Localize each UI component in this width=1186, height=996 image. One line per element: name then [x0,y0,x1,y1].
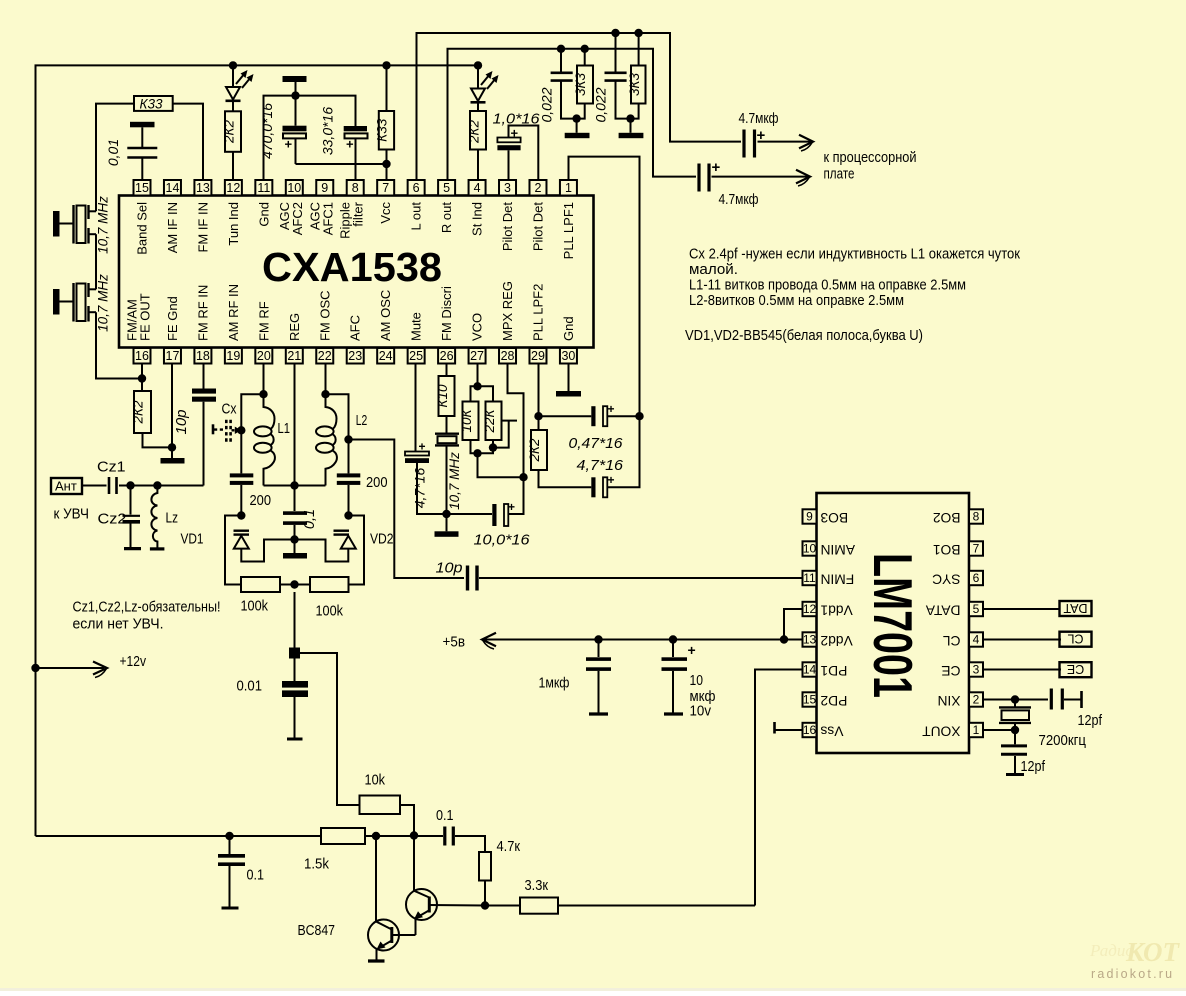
svg-text:XOUT: XOUT [922,724,961,739]
svg-text:1,0*16: 1,0*16 [493,111,541,128]
svg-text:2К2: 2К2 [130,400,145,424]
svg-text:LM7001: LM7001 [862,553,924,698]
svg-text:15: 15 [135,181,149,195]
svg-text:4.7к: 4.7к [497,838,521,855]
svg-text:radiokot.ru: radiokot.ru [1091,967,1174,981]
svg-text:CL: CL [1067,632,1083,646]
svg-text:0.1: 0.1 [247,867,265,884]
svg-text:4: 4 [973,633,980,647]
svg-text:Vdd2: Vdd2 [821,633,853,648]
svg-text:Gnd: Gnd [256,202,271,227]
svg-text:FM RF: FM RF [256,301,271,341]
svg-text:20: 20 [257,349,271,363]
svg-text:L1: L1 [278,420,291,437]
svg-text:10: 10 [287,181,301,195]
svg-text:7: 7 [382,181,389,195]
svg-text:10К: 10К [459,408,474,432]
svg-text:6: 6 [413,181,420,195]
svg-text:MPX REG: MPX REG [500,281,515,341]
svg-text:плате: плате [824,167,855,183]
svg-text:10k: 10k [365,772,386,789]
svg-text:Cz1,Cz2,Lz-обязательны!: Cz1,Cz2,Lz-обязательны! [73,600,221,616]
svg-text:Gnd: Gnd [561,316,576,341]
svg-text:FMIN: FMIN [821,572,855,587]
svg-text:16: 16 [135,349,149,363]
svg-text:9: 9 [806,510,813,524]
svg-text:REG: REG [287,313,302,341]
svg-text:13: 13 [803,633,817,647]
svg-text:+: + [419,440,426,454]
svg-text:24: 24 [379,349,393,363]
svg-text:3.3к: 3.3к [525,877,549,894]
svg-text:11: 11 [803,571,816,585]
svg-text:1мкф: 1мкф [539,676,570,692]
svg-text:SYC: SYC [932,572,960,587]
svg-text:Cx: Cx [222,402,238,418]
svg-text:Tun Ind: Tun Ind [226,202,241,246]
svg-text:+12v: +12v [120,654,147,670]
svg-text:+: + [608,473,615,487]
svg-text:8: 8 [352,181,359,195]
svg-text:10p: 10p [173,409,190,434]
svg-text:2К2: 2К2 [466,120,481,144]
svg-text:0,022: 0,022 [593,87,609,122]
svg-text:AM OSC: AM OSC [378,290,393,341]
svg-text:Vcc: Vcc [378,202,393,224]
svg-text:8: 8 [973,510,980,524]
svg-text:21: 21 [287,349,301,363]
svg-text:10p: 10p [436,560,463,577]
svg-text:+: + [757,127,766,144]
svg-text:L2-8витков 0.5мм на оправке 2.: L2-8витков 0.5мм на оправке 2.5мм [689,293,904,309]
svg-text:КОТ: КОТ [1125,937,1181,967]
svg-text:L1-11 витков провода 0.5мм на: L1-11 витков провода 0.5мм на оправке 2.… [689,278,966,294]
svg-text:12pf: 12pf [1021,759,1046,775]
svg-text:11: 11 [257,181,270,195]
svg-text:10v: 10v [690,704,712,720]
svg-text:19: 19 [226,349,240,363]
svg-text:filter: filter [351,201,366,226]
svg-text:AFC: AFC [348,315,363,341]
svg-text:L2: L2 [356,412,368,429]
svg-text:VD1: VD1 [181,531,204,548]
svg-text:Pilot Det: Pilot Det [500,202,515,252]
svg-text:FM RF IN: FM RF IN [195,285,210,341]
svg-text:13: 13 [196,181,210,195]
svg-text:3: 3 [973,663,980,677]
svg-text:10,7 MHz: 10,7 MHz [96,274,111,332]
svg-text:Vdd1: Vdd1 [821,603,853,618]
svg-text:5: 5 [973,602,980,616]
svg-text:7: 7 [973,542,980,556]
svg-text:FM OSC: FM OSC [317,290,332,341]
svg-text:CXA1538: CXA1538 [262,244,442,290]
svg-text:3К3: 3К3 [573,73,588,96]
svg-text:Ант: Ант [55,479,77,494]
svg-text:2К2: 2К2 [221,120,236,144]
svg-text:29: 29 [531,349,545,363]
svg-text:26: 26 [440,349,454,363]
svg-text:+: + [285,137,293,152]
svg-text:+: + [712,159,721,176]
svg-text:DATA: DATA [925,603,961,618]
svg-text:1: 1 [973,723,980,737]
svg-text:+5в: +5в [443,635,466,651]
svg-text:+: + [508,500,515,514]
svg-text:7200кгц: 7200кгц [1039,733,1087,749]
svg-text:15: 15 [803,693,817,707]
svg-text:0.1: 0.1 [436,807,454,824]
svg-text:12: 12 [226,181,240,195]
svg-text:2: 2 [973,693,980,707]
svg-text:VD1,VD2-BB545(белая полоса,бук: VD1,VD2-BB545(белая полоса,буква U) [685,328,923,344]
svg-text:10,7 MHz: 10,7 MHz [96,196,111,254]
svg-text:28: 28 [501,349,515,363]
svg-text:10,0*16: 10,0*16 [474,532,531,549]
svg-text:3К3: 3К3 [627,73,642,96]
svg-text:FE OUT: FE OUT [138,293,153,341]
svg-text:малой.: малой. [689,262,738,278]
svg-text:Cz1: Cz1 [97,460,126,476]
svg-text:L out: L out [409,202,424,231]
svg-text:10,7 MHz: 10,7 MHz [447,452,462,510]
svg-text:Cх 2.4pf -нужен если индуктивн: Cх 2.4pf -нужен если индуктивность L1 ок… [689,247,1021,263]
svg-text:AFC2: AFC2 [290,202,305,235]
svg-text:22К: 22К [482,408,497,433]
svg-text:200: 200 [250,492,272,509]
svg-text:17: 17 [166,349,180,363]
svg-text:R out: R out [439,202,454,233]
svg-text:0,022: 0,022 [539,87,555,122]
svg-text:+: + [511,126,519,141]
svg-text:2К2: 2К2 [527,438,542,462]
svg-text:12pf: 12pf [1078,713,1103,729]
svg-text:XIN: XIN [938,693,961,708]
svg-text:16: 16 [803,723,817,737]
svg-text:22: 22 [318,349,332,363]
svg-text:5: 5 [443,181,450,195]
svg-text:BO1: BO1 [933,542,961,557]
svg-text:10: 10 [690,673,704,689]
svg-text:4,7*16: 4,7*16 [577,457,624,474]
svg-text:14: 14 [166,181,180,195]
svg-text:+: + [608,402,615,416]
svg-text:+: + [346,137,354,152]
svg-text:9: 9 [321,181,328,195]
svg-text:Lz: Lz [166,511,179,527]
svg-text:CE: CE [1067,662,1084,676]
svg-text:AM IF IN: AM IF IN [165,202,180,253]
svg-text:2: 2 [535,181,542,195]
svg-text:Pilot Det: Pilot Det [530,202,545,252]
svg-text:AM RF IN: AM RF IN [226,284,241,341]
svg-text:100k: 100k [241,598,269,615]
svg-text:Mute: Mute [409,312,424,341]
svg-text:4.7мкф: 4.7мкф [739,111,779,127]
svg-text:6: 6 [973,571,980,585]
svg-text:CE: CE [941,663,960,678]
svg-text:VD2: VD2 [370,531,394,548]
svg-text:FM IF IN: FM IF IN [195,202,210,253]
svg-text:St Ind: St Ind [470,202,485,236]
svg-text:К33: К33 [140,97,163,112]
svg-text:33,0*16: 33,0*16 [320,107,336,155]
svg-text:если нет УВЧ.: если нет УВЧ. [73,617,164,633]
svg-text:PD1: PD1 [821,663,848,678]
svg-text:23: 23 [348,349,362,363]
svg-text:30: 30 [561,349,575,363]
svg-text:18: 18 [196,349,210,363]
svg-text:0,47*16: 0,47*16 [569,435,624,452]
svg-text:BC847: BC847 [298,922,336,939]
svg-text:0,1: 0,1 [302,509,318,529]
svg-text:25: 25 [409,349,423,363]
svg-text:AFC1: AFC1 [320,202,335,235]
svg-text:FM Discri: FM Discri [439,286,454,341]
svg-text:AMIN: AMIN [821,542,856,557]
svg-text:12: 12 [803,602,817,616]
svg-text:CL: CL [943,633,961,648]
svg-text:PLL LPF2: PLL LPF2 [530,284,545,341]
svg-text:PD2: PD2 [821,693,848,708]
svg-text:1: 1 [565,181,572,195]
svg-text:BO2: BO2 [933,510,961,525]
svg-text:100k: 100k [316,603,344,620]
svg-text:4.7мкф: 4.7мкф [719,192,759,208]
svg-text:0,01: 0,01 [105,139,121,166]
svg-text:1.5k: 1.5k [304,856,329,873]
svg-text:VCO: VCO [470,313,485,341]
svg-text:к процессорной: к процессорной [824,150,917,166]
svg-text:К10: К10 [435,384,450,407]
svg-text:4: 4 [474,181,481,195]
svg-text:14: 14 [803,663,817,677]
svg-text:27: 27 [470,349,484,363]
svg-text:BO3: BO3 [820,510,848,525]
svg-text:3: 3 [504,181,511,195]
svg-text:к УВЧ: к УВЧ [54,507,90,523]
svg-text:К33: К33 [375,118,390,141]
svg-text:10: 10 [803,542,817,556]
svg-text:FE Gnd: FE Gnd [165,296,180,341]
svg-text:0.01: 0.01 [237,678,263,695]
svg-text:Vss: Vss [820,724,843,739]
svg-text:4,7*16: 4,7*16 [412,468,428,509]
svg-text:Cz2: Cz2 [98,512,127,528]
svg-text:470,0*16: 470,0*16 [259,103,275,159]
svg-text:Band Sel: Band Sel [135,202,150,255]
svg-text:PLL LPF1: PLL LPF1 [561,202,576,259]
svg-text:+: + [688,642,696,658]
svg-text:200: 200 [366,474,388,491]
svg-text:DAT: DAT [1063,601,1087,615]
